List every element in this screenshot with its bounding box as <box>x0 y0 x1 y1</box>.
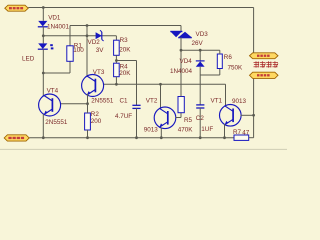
wire bottom rail left <box>29 137 234 139</box>
svg-text:9013: 9013 <box>144 127 159 134</box>
wire R6 bottom stem <box>219 69 221 76</box>
resistor R1 <box>67 46 73 62</box>
diode VD1 <box>38 21 48 27</box>
wire VT3 emitter <box>87 94 89 104</box>
junction VT1e/rail <box>223 136 226 139</box>
label VD1 <box>48 15 61 22</box>
wire right vertical upper <box>253 8 255 54</box>
svg-text:20K: 20K <box>119 46 131 53</box>
junction H5/VD4 <box>199 49 202 52</box>
label VT4 value 2N5551 <box>45 119 68 126</box>
label R4 value 20K <box>119 70 131 77</box>
wire VT2 top entry <box>160 84 162 108</box>
transistor VT3 <box>82 75 104 97</box>
svg-text:R5: R5 <box>184 117 193 124</box>
label C1 <box>120 98 129 105</box>
LED arrows <box>50 44 53 49</box>
svg-text:470K: 470K <box>178 127 194 134</box>
transistor VT2 <box>154 107 176 129</box>
svg-text:VT4: VT4 <box>47 87 59 94</box>
wire H5 rail <box>181 49 220 51</box>
junction node VD1-LED <box>42 34 45 37</box>
svg-text:9013: 9013 <box>232 98 247 105</box>
page border bottom <box>0 148 287 150</box>
junction VT3e/R2/VT4b <box>86 102 89 105</box>
label VD2 value 3V <box>96 47 105 54</box>
svg-text:1N4004: 1N4004 <box>170 68 193 75</box>
svg-text:C1: C1 <box>120 98 129 105</box>
wire collector rail84 <box>103 83 225 85</box>
junction R4/rail84 <box>115 83 118 86</box>
label VD2 <box>88 39 101 46</box>
label VD3 value 26V <box>192 40 204 47</box>
wire R6 top stem <box>219 50 221 54</box>
wire VT2 base to R5 <box>175 113 181 118</box>
svg-text:VD2: VD2 <box>88 39 101 46</box>
svg-text:1UF: 1UF <box>201 126 213 133</box>
wire VT4 emitter <box>42 114 44 138</box>
diode VD4 <box>196 61 205 67</box>
svg-text:LED: LED <box>22 55 35 62</box>
wire VT4 base <box>60 103 87 105</box>
label VD3 <box>196 31 209 38</box>
wire VD4 bottom stem <box>199 67 201 75</box>
wire bottom rail right <box>249 137 254 139</box>
junction C1/rail <box>135 136 138 139</box>
label R5 value 470K <box>178 127 194 134</box>
label connect-telephone (Chinese) <box>254 61 279 67</box>
wire VD4 top stem <box>199 50 201 61</box>
wire R4 bottom stem <box>115 77 117 85</box>
capacitor C1 <box>132 105 140 108</box>
wire C2 top vertical <box>199 75 201 105</box>
wire C2 bottom stem <box>199 108 201 138</box>
svg-text:1N4001: 1N4001 <box>47 24 70 31</box>
label R3 value 20K <box>119 46 131 53</box>
label R5 <box>184 117 193 124</box>
wire H2 rail <box>70 25 181 27</box>
svg-text:3V: 3V <box>96 47 105 54</box>
transistor VT1 <box>220 105 242 127</box>
label VT1 value 9013 <box>232 98 247 105</box>
svg-text:VT3: VT3 <box>93 69 105 76</box>
wire VT4 collector <box>42 73 44 96</box>
label VT2 value 9013 <box>144 127 159 134</box>
resistor R4 <box>114 63 120 76</box>
wire LED to node <box>42 49 44 73</box>
label C1 value 4.7UF <box>115 113 132 120</box>
label C2 value 1UF <box>201 126 213 133</box>
resistor R7 <box>234 135 249 140</box>
wire H4 junction to C1 drop <box>116 61 136 106</box>
junction V87/H3 <box>86 34 89 37</box>
port line input bottom <box>4 135 29 141</box>
svg-text:750K: 750K <box>228 65 244 72</box>
wire C1 bottom stem <box>136 108 138 137</box>
wire right vertical lower <box>253 79 255 138</box>
wire R2 stems <box>87 104 89 138</box>
label LED <box>22 55 35 62</box>
label R4 <box>120 63 129 70</box>
wire VT2 emitter <box>160 128 162 138</box>
svg-text:20K: 20K <box>119 70 131 77</box>
resistor R3 <box>114 40 120 55</box>
svg-text:R6: R6 <box>224 54 233 61</box>
label VT4 <box>47 87 59 94</box>
junction top rail / VD1 <box>42 6 45 9</box>
svg-text:200: 200 <box>91 118 102 125</box>
port phone top <box>250 53 279 59</box>
label R7 <box>233 129 242 136</box>
resistor R2 <box>85 113 91 130</box>
wire VT1 top entry <box>225 84 227 106</box>
svg-text:2N5551: 2N5551 <box>45 119 68 126</box>
svg-text:26V: 26V <box>192 40 204 47</box>
svg-text:R3: R3 <box>120 37 129 44</box>
svg-text:VD3: VD3 <box>196 31 209 38</box>
wire node to R1 bottom <box>43 61 70 73</box>
wire VD3 bottom stem <box>180 37 182 50</box>
port phone bottom <box>250 72 279 78</box>
svg-text:VT2: VT2 <box>146 98 158 105</box>
resistor R6 <box>217 54 222 69</box>
resistor R5 <box>178 97 184 113</box>
wire H3 node to R3 <box>43 35 116 37</box>
svg-text:4.7UF: 4.7UF <box>115 113 132 120</box>
svg-text:R7: R7 <box>233 129 242 136</box>
label R2 value 200 <box>91 118 102 125</box>
label VT1 <box>211 98 223 105</box>
LED D1 <box>38 43 48 49</box>
svg-text:100: 100 <box>73 47 84 54</box>
junction VT2e/rail <box>160 136 163 139</box>
label VT3 value 2N5551 <box>91 97 114 104</box>
wire V87 vertical <box>86 26 88 77</box>
svg-text:VT1: VT1 <box>211 98 223 105</box>
label R7 value 47 <box>242 129 250 136</box>
junction H2/V87 <box>86 24 89 27</box>
svg-text:2N5551: 2N5551 <box>91 97 114 104</box>
junction VT4e/rail <box>42 136 45 139</box>
wire VT1 emitter <box>224 124 226 138</box>
label R3 <box>120 37 129 44</box>
junction R2/rail <box>86 136 89 139</box>
label R2 <box>91 111 100 118</box>
wire R5 top vertical <box>180 50 182 96</box>
port line input top <box>5 5 28 11</box>
zener VD2 <box>96 30 104 41</box>
svg-text:VD4: VD4 <box>180 58 193 65</box>
wire rail76 <box>200 74 220 76</box>
junction R3/R4/C1 <box>115 59 118 62</box>
junction H5/R5 <box>180 49 183 52</box>
TVS VD3 <box>170 32 192 38</box>
wire R3 bottom <box>115 55 117 63</box>
wire top rail <box>28 7 253 9</box>
capacitor C2 <box>196 105 204 108</box>
wire R3 top stem <box>115 36 117 40</box>
label VT3 <box>93 69 105 76</box>
junction LED/R1/VT4 <box>42 72 45 75</box>
label VT2 <box>146 98 158 105</box>
transistor VT4 <box>39 94 61 116</box>
junction right rail/VT1 base <box>252 114 255 117</box>
wire VD1 anode <box>42 8 44 21</box>
label R6 <box>224 54 233 61</box>
wire R1 top stem <box>69 26 71 46</box>
wire VD1 cathode to LED <box>42 27 44 44</box>
label R6 value 750K <box>228 65 244 72</box>
junction C2/rail <box>199 136 202 139</box>
junction rail84/VT2 <box>159 83 162 86</box>
wire H2 to VD3 <box>180 26 182 32</box>
label 1N4001 <box>47 24 70 31</box>
label R1 value 100 <box>73 47 84 54</box>
label VD4 <box>180 58 193 65</box>
label C2 <box>196 115 205 122</box>
svg-text:47: 47 <box>242 129 250 136</box>
svg-text:VD1: VD1 <box>48 15 61 22</box>
wire VT1 base to right rail <box>241 114 254 116</box>
label VD4 value 1N4004 <box>170 68 193 75</box>
label R1 <box>74 43 83 50</box>
